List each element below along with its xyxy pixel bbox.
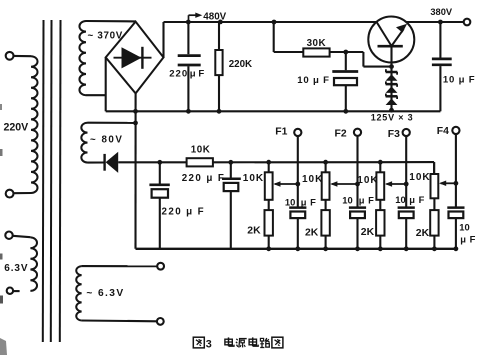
- svg-text:10: 10: [395, 194, 405, 205]
- svg-text:2K: 2K: [247, 226, 261, 237]
- svg-text:30K: 30K: [307, 38, 326, 49]
- svg-text:μ F: μ F: [460, 233, 476, 244]
- svg-text:10 μ F: 10 μ F: [443, 75, 476, 86]
- svg-text:220 μ F: 220 μ F: [182, 173, 226, 184]
- svg-text:2K: 2K: [361, 227, 375, 238]
- svg-text:220 μ F: 220 μ F: [162, 206, 206, 217]
- svg-text:10 μ F: 10 μ F: [297, 75, 330, 86]
- svg-text:220: 220: [169, 68, 188, 79]
- svg-text:2K: 2K: [305, 227, 319, 238]
- svg-text:10K: 10K: [191, 144, 210, 155]
- svg-text:220K: 220K: [229, 59, 252, 70]
- svg-text:10K: 10K: [409, 172, 430, 183]
- svg-text:~ 370V: ~ 370V: [88, 30, 124, 41]
- svg-text:F2: F2: [335, 129, 347, 140]
- svg-text:380V: 380V: [430, 7, 453, 17]
- svg-text:μ F: μ F: [409, 194, 425, 205]
- svg-text:10: 10: [342, 194, 352, 205]
- svg-text:480V: 480V: [203, 11, 226, 22]
- svg-text:μ F: μ F: [301, 197, 317, 208]
- svg-text:10K: 10K: [302, 174, 323, 185]
- svg-text:~ 6.3V: ~ 6.3V: [86, 288, 124, 299]
- svg-text:10: 10: [459, 222, 469, 233]
- svg-text:6.3V: 6.3V: [4, 263, 28, 274]
- svg-text:~ 80V: ~ 80V: [90, 134, 123, 145]
- svg-text:F3: F3: [388, 129, 400, 140]
- svg-text:F1: F1: [275, 126, 287, 137]
- svg-text:220V: 220V: [4, 122, 29, 134]
- svg-text:125V × 3: 125V × 3: [371, 112, 414, 122]
- svg-text:2K: 2K: [416, 228, 430, 239]
- svg-text:10K: 10K: [357, 175, 378, 186]
- svg-text:10K: 10K: [243, 173, 264, 184]
- svg-text:10: 10: [285, 197, 295, 208]
- svg-text:3: 3: [206, 339, 212, 351]
- svg-text:μ F: μ F: [190, 68, 205, 79]
- svg-text:μ F: μ F: [359, 194, 375, 205]
- svg-text:F4: F4: [437, 126, 449, 137]
